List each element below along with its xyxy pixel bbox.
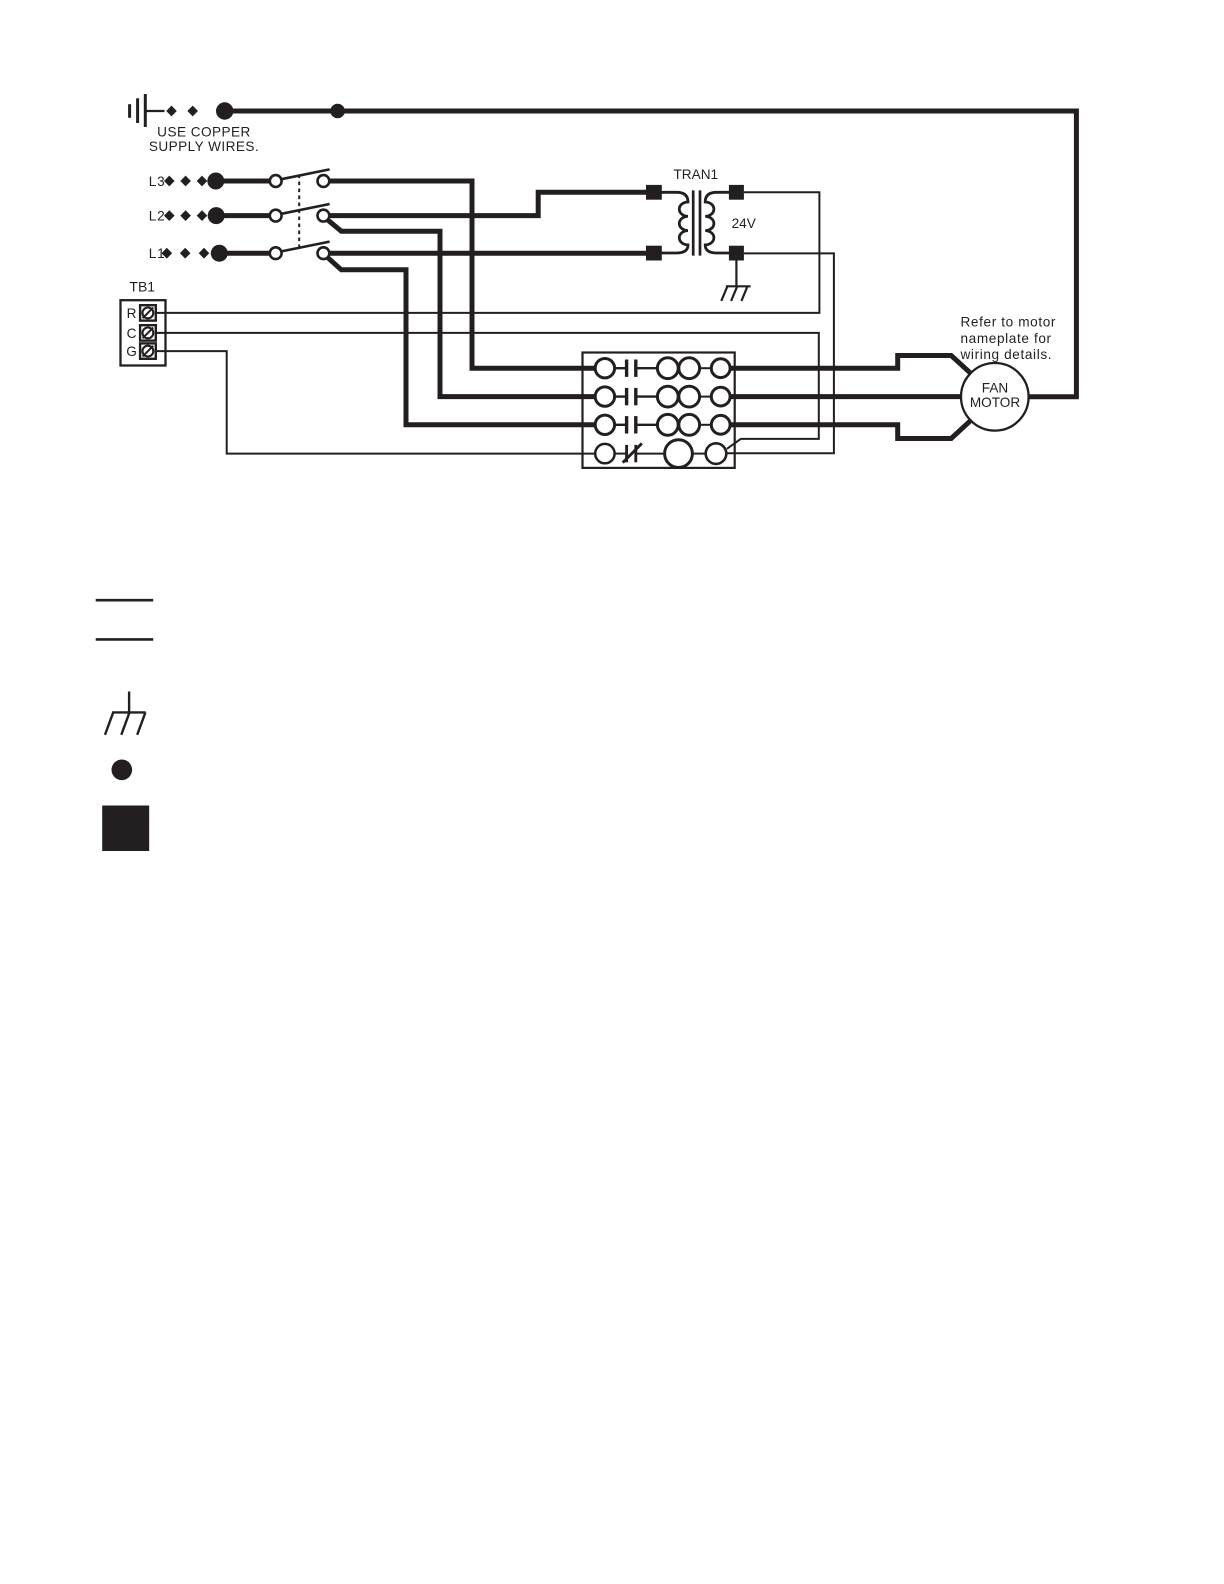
wire L2 branch to contactor row 2 (327, 220, 595, 397)
L1 switch pole terminal (270, 247, 282, 259)
svg-text:TB1: TB1 (129, 279, 155, 295)
TB1 terminal G (126, 343, 155, 359)
svg-text:L3: L3 (149, 174, 166, 189)
field splice diamond 2 on ground lead (187, 106, 198, 117)
wire L1 to transformer primary bottom (329, 251, 646, 256)
wire contactor row 2 to fan motor (730, 394, 961, 399)
contactor row 1: NO power contact L3 (595, 358, 730, 379)
legend: line voltage field wiring symbol (96, 599, 154, 602)
transformer earth ground symbol (721, 286, 750, 301)
splice dot at ground rail start (216, 102, 233, 119)
note: USE COPPER SUPPLY WIRES (149, 124, 259, 154)
L3 wire to switch (216, 179, 270, 184)
terminal block TB1 box (121, 300, 166, 365)
wire contactor row 3 to fan motor (730, 421, 971, 439)
transformer ground stem (735, 261, 737, 287)
svg-text:L2: L2 (149, 208, 166, 223)
svg-text:MOTOR: MOTOR (970, 395, 1021, 410)
legend: earth ground symbol (105, 692, 146, 735)
transformer TRAN1 primary terminal top (square) (646, 185, 662, 200)
L1 supply dot (211, 245, 228, 262)
L2 supply dot (208, 207, 225, 224)
L3 switch blade (281, 169, 329, 179)
transformer secondary winding (705, 192, 730, 253)
chassis ground symbol (supply earth) (130, 94, 165, 127)
TB1 terminal R (127, 305, 156, 321)
L2 diamonds (164, 210, 207, 221)
contactor row 2: NO power contact L2 (595, 386, 730, 407)
L3 switch throw terminal (318, 175, 330, 187)
L1 switch blade (281, 242, 329, 252)
junction dot on ground rail (330, 104, 345, 119)
wire L2 to transformer primary top (329, 192, 646, 215)
svg-text:24V: 24V (732, 216, 756, 231)
wire contactor row 1 to fan motor (730, 356, 971, 374)
disconnect switch linkage (dashed) (298, 175, 300, 247)
note: refer to motor nameplate (960, 315, 1057, 363)
wire L1 branch to contactor row 3 (327, 257, 595, 425)
transformer TRAN1 primary terminal bottom (square) (646, 246, 662, 261)
legend: terminal square symbol (102, 806, 149, 852)
svg-text:Refer to motor: Refer to motor (961, 315, 1057, 330)
fan motor M1 (961, 363, 1029, 431)
contactor row 4: NC contact and coil (595, 440, 726, 468)
wire secondary bottom to contactor coil (727, 253, 834, 453)
L3 switch pole terminal (270, 175, 282, 187)
L2 switch throw terminal (318, 210, 330, 222)
svg-text:FAN: FAN (982, 381, 1008, 396)
transformer TRAN1 secondary terminal bottom (square) (729, 246, 744, 261)
svg-text:R: R (127, 306, 137, 321)
svg-text:TRAN1: TRAN1 (674, 167, 719, 182)
L1 switch throw terminal (318, 247, 330, 259)
svg-text:SUPPLY WIRES.: SUPPLY WIRES. (149, 139, 259, 154)
wire R to transformer secondary top (156, 192, 820, 313)
wire C to contactor coil blade (156, 333, 819, 449)
svg-text:nameplate for: nameplate for (961, 331, 1052, 346)
L1 diamonds (162, 248, 210, 259)
wire G to contactor row 4 (156, 351, 596, 454)
L2 wire to switch (216, 213, 270, 218)
transformer TRAN1 secondary terminal top (square) (729, 185, 744, 200)
field splice diamond 1 on ground lead (166, 106, 177, 117)
transformer core (692, 190, 695, 255)
L3 supply dot (207, 173, 224, 190)
ground rail wire to fan motor (225, 111, 1077, 397)
TB1 terminal C (127, 325, 156, 341)
L2 switch blade (281, 204, 329, 214)
L2 switch pole terminal (270, 210, 282, 222)
contactor C1 box (583, 353, 735, 468)
legend: low voltage field wiring symbol (96, 638, 154, 641)
svg-text:C: C (127, 326, 137, 341)
svg-text:G: G (126, 344, 137, 359)
transformer primary winding (661, 192, 689, 253)
svg-text:wiring details.: wiring details. (960, 347, 1053, 362)
wire L3 to contactor row 1 (329, 181, 595, 368)
L3 diamonds (164, 176, 207, 187)
legend: splice dot symbol (112, 760, 133, 781)
contactor row 3: NO power contact L1 (595, 414, 730, 435)
L1 wire to switch (219, 251, 270, 256)
svg-text:USE COPPER: USE COPPER (157, 124, 251, 139)
